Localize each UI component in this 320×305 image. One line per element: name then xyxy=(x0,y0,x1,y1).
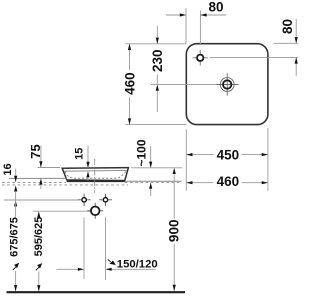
dim 15: up arrow xyxy=(86,171,89,177)
dim 230: mid segment xyxy=(156,75,158,85)
counter dashed row A xyxy=(2,181,66,183)
dim 900: lower segment xyxy=(173,244,175,292)
svg-text:80: 80 xyxy=(280,19,295,34)
dim 230: down arrow xyxy=(156,38,159,44)
basin plan view outline xyxy=(186,44,268,125)
extension line faucet vertical xyxy=(199,11,201,45)
supply cross right circle xyxy=(103,198,107,202)
leader arrow 675 xyxy=(13,264,19,270)
supply drop line right xyxy=(105,218,107,281)
extension line top-left of plan xyxy=(126,43,187,45)
basin elevation outline xyxy=(62,168,128,181)
dim 595/625: lower segment xyxy=(38,271,40,291)
supply cross right ticks xyxy=(99,194,112,206)
dim 15: down arrow xyxy=(86,162,89,168)
leader arrow 595 xyxy=(36,264,42,270)
dim 80 top: left arrow xyxy=(200,13,206,16)
extension rim left xyxy=(38,167,61,169)
dim 15: upper tail xyxy=(87,146,89,169)
dim 150/120: right arrow xyxy=(78,268,84,271)
dim 80 right: down arrow xyxy=(295,37,298,43)
supply cross left ticks xyxy=(78,194,91,206)
dim 675/675: lower segment xyxy=(15,271,17,291)
dim 15: lower tail xyxy=(87,178,89,181)
dim 80 top: right tail xyxy=(200,14,226,16)
svg-text:80: 80 xyxy=(208,0,223,15)
svg-text:~100: ~100 xyxy=(135,139,149,166)
dim 150/120: left tail xyxy=(57,268,79,270)
elevation drain ticks xyxy=(87,203,103,219)
dim 450: left segment xyxy=(186,154,213,156)
extension line 80-right lower xyxy=(210,56,298,58)
dim 900: up arrow xyxy=(173,168,176,174)
dim 460 left: lower segment xyxy=(129,98,131,125)
dim 150/120: left arrow xyxy=(106,268,112,271)
dim 75: lower tail xyxy=(40,185,42,189)
svg-text:595/625: 595/625 xyxy=(33,217,45,257)
extension rim right xyxy=(131,167,182,169)
counter top left solid xyxy=(9,177,67,179)
basin contact line xyxy=(67,180,125,182)
leader arrow 150/120 xyxy=(108,259,115,264)
basin elevation inner bowl dashed xyxy=(65,171,127,179)
dim ~100: lower tail xyxy=(150,189,152,196)
dim 75: down arrow xyxy=(39,161,42,167)
elevation drain circle xyxy=(91,207,100,216)
svg-text:675/675: 675/675 xyxy=(9,217,21,257)
dim 80 top: right arrow xyxy=(180,13,186,16)
svg-text:460: 460 xyxy=(217,174,240,189)
dim 460 left: down arrow xyxy=(128,118,131,124)
svg-text:150/120: 150/120 xyxy=(117,259,158,271)
dim 595/625: up arrow xyxy=(37,211,40,217)
dim 460 bottom: right segment xyxy=(242,182,268,184)
dim 595/625: down arrow xyxy=(37,285,40,291)
counter dashed row B xyxy=(2,184,128,186)
dim 16: down arrow xyxy=(14,176,17,182)
extension line bottom-left of plan xyxy=(126,124,187,126)
dim 80 right: lower tail xyxy=(295,57,297,76)
svg-text:460: 460 xyxy=(122,72,137,95)
dim 675/675: upper segment xyxy=(15,192,17,218)
extension supply level xyxy=(4,199,79,201)
drain crosshair ticks xyxy=(216,73,238,95)
dim 450: right segment xyxy=(242,154,268,156)
dim 900: upper segment xyxy=(173,174,175,218)
dim 230: upper tail xyxy=(156,26,158,44)
dim ~100: upper tail xyxy=(150,146,152,168)
supply cross left circle xyxy=(82,198,86,202)
counter dashed row A right xyxy=(125,181,179,183)
faucet hole ticks xyxy=(193,50,208,65)
svg-text:900: 900 xyxy=(167,220,182,243)
dim 80 top: left tail xyxy=(166,14,186,16)
dim 230: lower tail xyxy=(156,91,158,112)
dim 16: up arrow xyxy=(14,185,17,191)
extension line 80-right upper xyxy=(274,42,299,44)
centerline elevation xyxy=(94,159,96,193)
dim 75: upper tail xyxy=(40,146,42,168)
counter top right solid xyxy=(125,180,182,182)
extension drain level xyxy=(33,210,91,212)
dim 675/675: up arrow xyxy=(14,200,17,206)
faucet hole circle xyxy=(197,55,203,61)
dim 450: left arrow xyxy=(186,153,192,156)
dim ~100: up arrow xyxy=(149,183,152,189)
drain circles xyxy=(220,78,234,92)
svg-text:75: 75 xyxy=(28,144,43,158)
dim 460 bottom: right arrow xyxy=(262,181,268,184)
dim 900: down arrow xyxy=(173,285,176,291)
dim 460 left: up arrow xyxy=(128,44,131,50)
dim 75: up arrow xyxy=(39,178,42,184)
dim 80 right: up arrow xyxy=(295,57,298,63)
supply drop line left xyxy=(83,218,85,280)
dim 80 right: upper tail xyxy=(295,19,297,43)
dim ~100: down arrow xyxy=(149,162,152,168)
extension line 80-left vertical xyxy=(185,8,187,44)
extension line plan left vertical xyxy=(185,129,187,190)
svg-text:15: 15 xyxy=(74,148,86,160)
dim 460 bottom: left arrow xyxy=(186,181,192,184)
svg-text:450: 450 xyxy=(217,148,240,163)
dim 460 left: upper segment xyxy=(129,44,131,70)
svg-text:16: 16 xyxy=(2,163,14,175)
dim 16: upper tail xyxy=(15,169,17,183)
dim 450: right arrow xyxy=(262,153,268,156)
dim 230: up arrow below line xyxy=(156,85,159,91)
dim 675/675: down arrow xyxy=(14,285,17,291)
basin elevation inner rim line xyxy=(64,170,127,173)
extension line plan right vertical xyxy=(267,128,269,191)
extension line drain level left xyxy=(151,83,217,85)
svg-text:230: 230 xyxy=(150,49,165,72)
dim 460 bottom: left segment xyxy=(186,182,213,184)
floor line xyxy=(7,291,186,293)
dim 150/120: right tail xyxy=(112,268,156,270)
